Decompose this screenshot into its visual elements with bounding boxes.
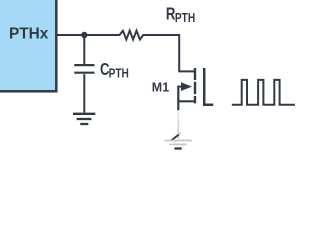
svg-text:PTH: PTH bbox=[109, 66, 129, 80]
svg-text:PTHx: PTHx bbox=[9, 26, 49, 43]
svg-text:PTH: PTH bbox=[175, 11, 195, 25]
svg-text:R: R bbox=[166, 5, 175, 24]
svg-text:M1: M1 bbox=[152, 81, 169, 95]
